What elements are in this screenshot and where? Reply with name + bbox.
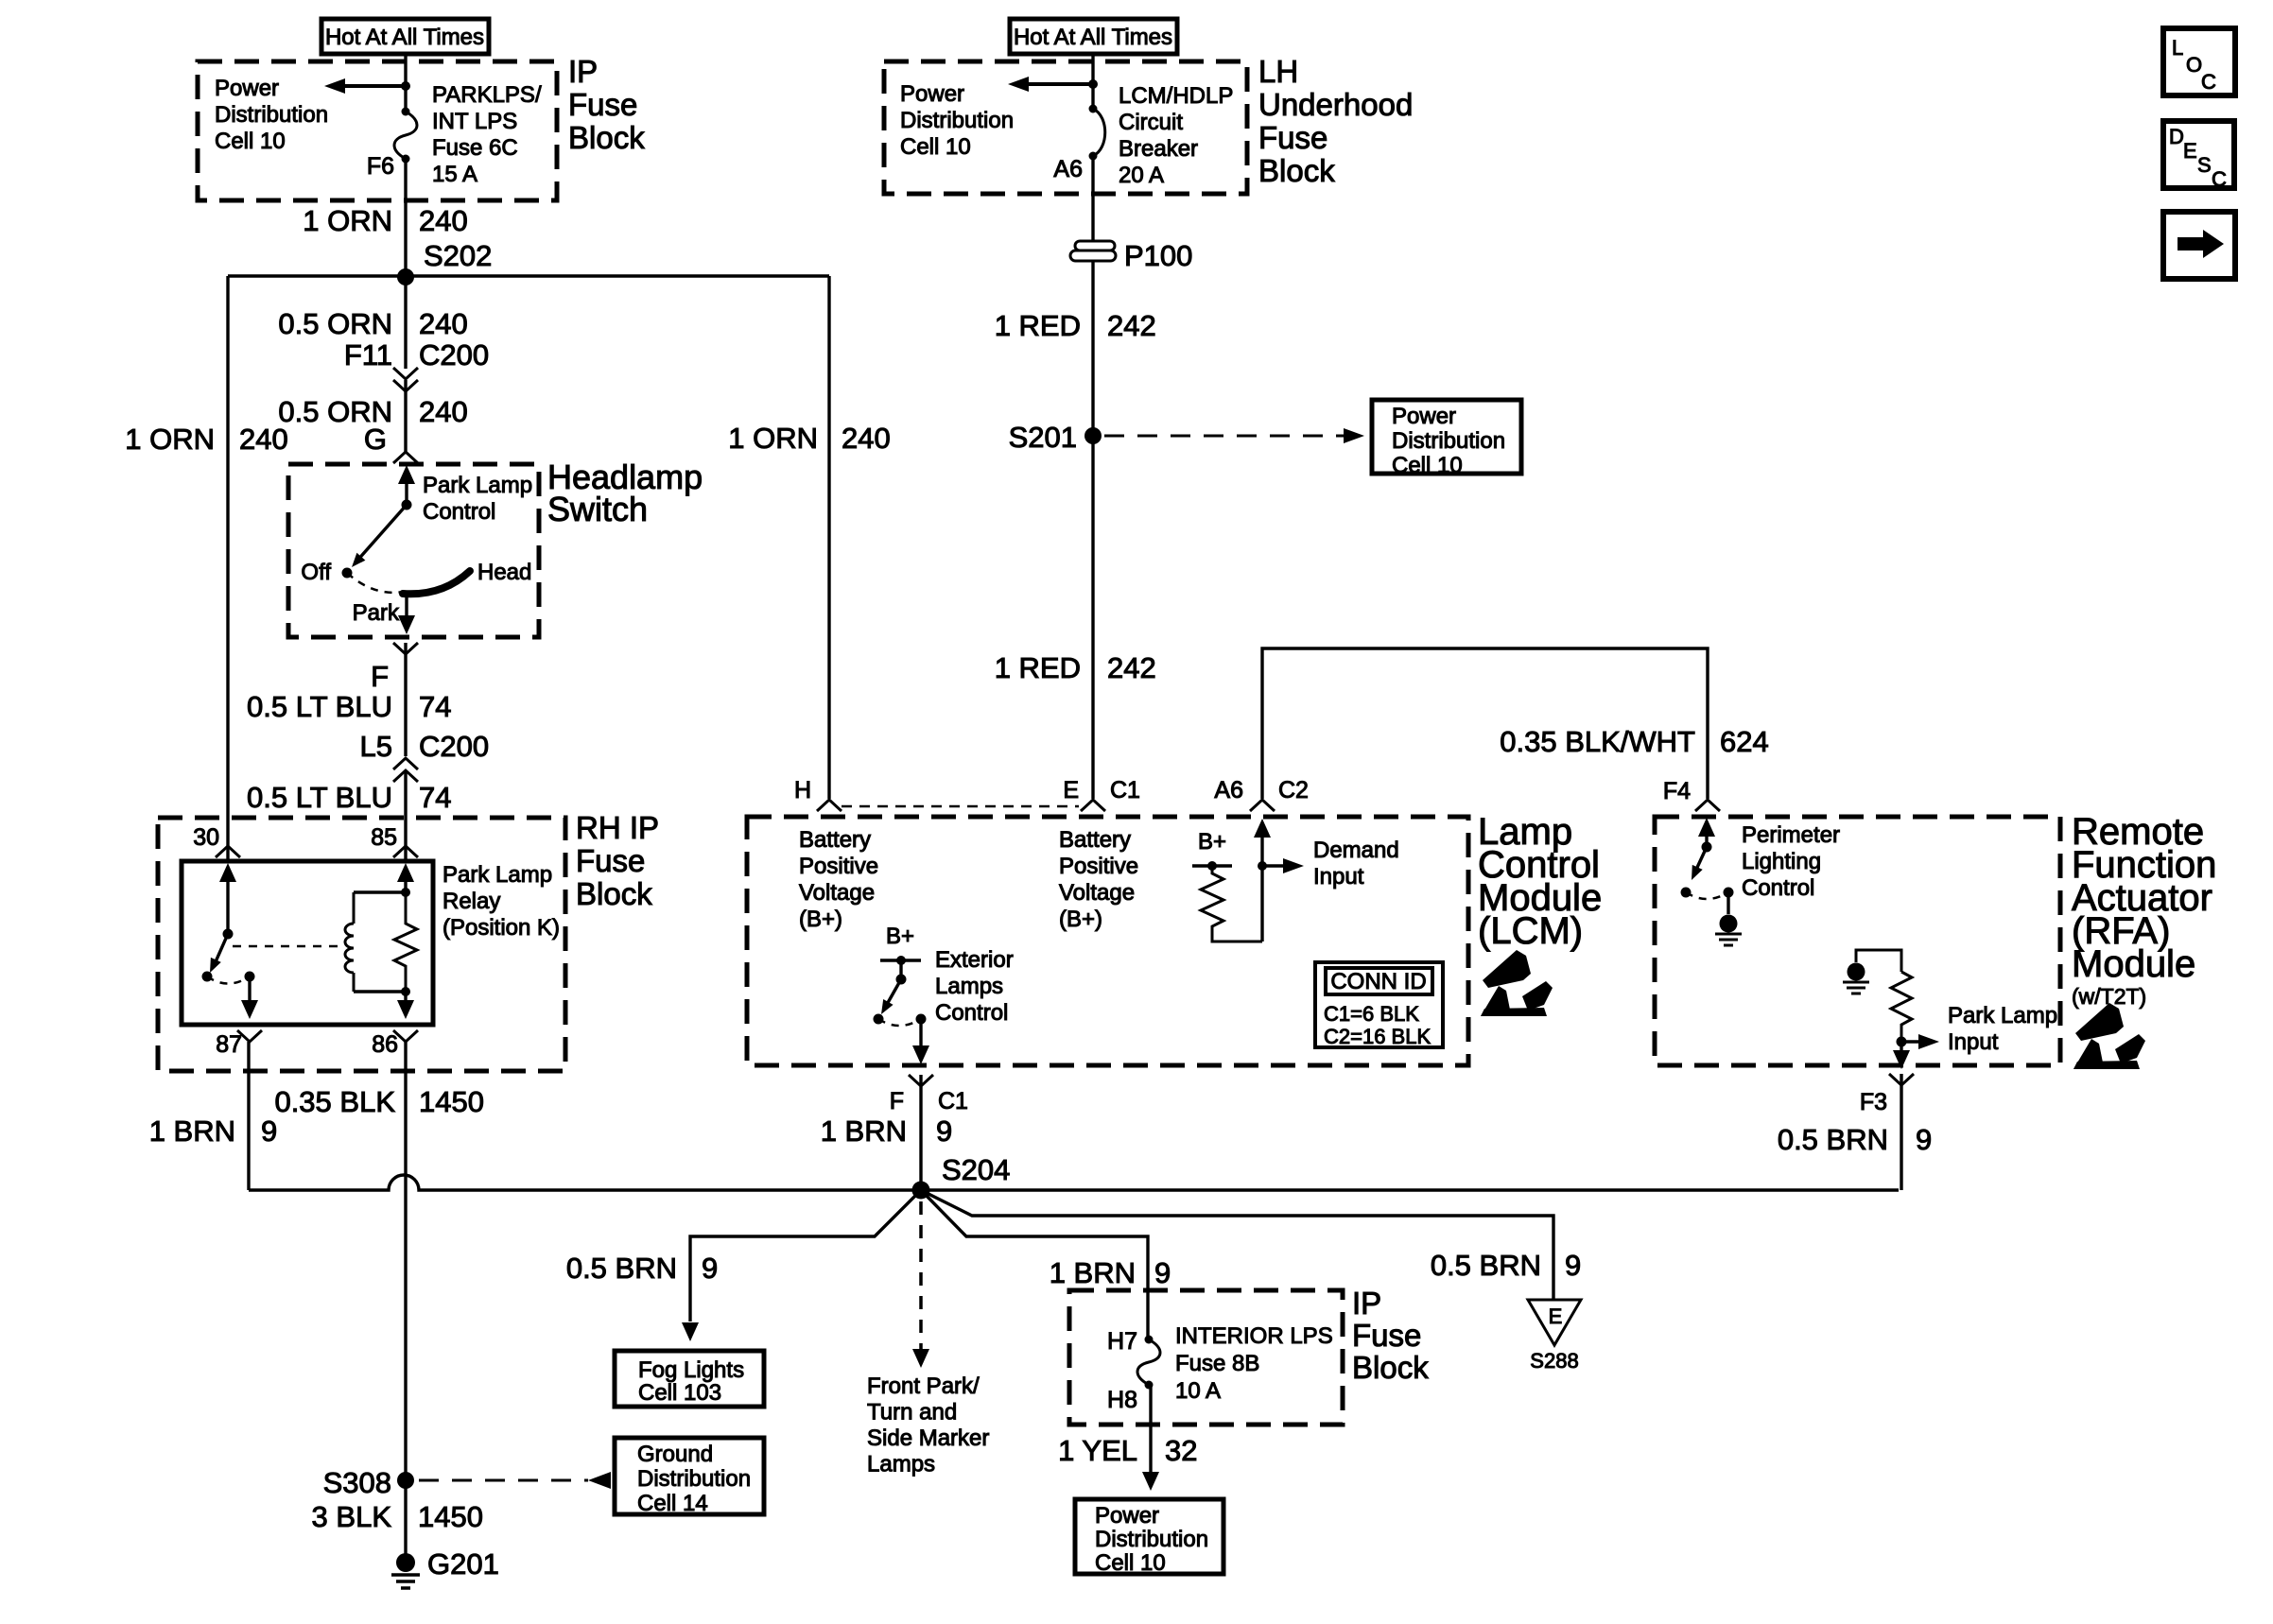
relay switch arm	[214, 934, 228, 966]
svg-text:Input: Input	[1313, 864, 1364, 890]
svg-text:L: L	[2172, 36, 2183, 60]
svg-text:Head: Head	[477, 560, 531, 585]
svg-text:Positive: Positive	[1059, 854, 1138, 879]
svg-text:F6: F6	[367, 153, 394, 180]
svg-text:0.5 BRN: 0.5 BRN	[1778, 1123, 1888, 1156]
svg-text:0.5 LT BLU: 0.5 LT BLU	[247, 690, 392, 723]
svg-text:Distribution: Distribution	[215, 102, 328, 128]
dashed branch S204 to front park lamps	[919, 1201, 923, 1350]
svg-text:1450: 1450	[418, 1500, 483, 1533]
svg-text:F3: F3	[1860, 1089, 1887, 1115]
exterior lamps switch arm	[885, 979, 901, 1008]
svg-text:Off: Off	[301, 560, 331, 585]
svg-text:Fuse 6C: Fuse 6C	[432, 135, 518, 161]
svg-text:74: 74	[419, 690, 451, 723]
IP fuse block dashed box (top left)	[198, 61, 557, 200]
perimeter dashed travel arc	[1686, 892, 1728, 899]
svg-text:Hot At All Times: Hot At All Times	[1014, 25, 1172, 50]
svg-text:Demand: Demand	[1313, 838, 1399, 863]
splice S201	[1084, 427, 1102, 444]
svg-text:0.5 BRN: 0.5 BRN	[1431, 1249, 1541, 1282]
svg-text:Perimeter: Perimeter	[1742, 822, 1840, 848]
svg-text:1 ORN: 1 ORN	[303, 204, 392, 237]
svg-text:9: 9	[261, 1114, 277, 1148]
pin 30 connector chevron	[216, 846, 240, 857]
svg-text:B+: B+	[886, 924, 914, 949]
svg-text:0.5 LT BLU: 0.5 LT BLU	[247, 781, 392, 814]
svg-text:S: S	[2197, 153, 2212, 177]
connector C200 (L5) symbol	[393, 758, 418, 769]
svg-text:C200: C200	[419, 338, 489, 371]
svg-text:Distribution: Distribution	[637, 1466, 751, 1492]
wire from Hot At All Times into LH underhood fuse block	[1091, 54, 1094, 109]
reference box Power Distribution Cell 10 (right of S201)	[1372, 400, 1521, 474]
svg-text:240: 240	[419, 395, 468, 428]
svg-text:Fuse 8B: Fuse 8B	[1175, 1351, 1259, 1376]
arrow to power distribution	[1142, 1472, 1159, 1491]
svg-text:H8: H8	[1107, 1387, 1137, 1413]
grommet P100	[1070, 241, 1116, 261]
svg-text:Fuse: Fuse	[1352, 1318, 1421, 1353]
svg-text:Park: Park	[353, 600, 400, 626]
svg-text:S201: S201	[1009, 421, 1077, 454]
svg-text:20 A: 20 A	[1119, 163, 1164, 188]
svg-text:9: 9	[702, 1252, 718, 1285]
svg-text:86: 86	[372, 1031, 398, 1058]
svg-text:0.35 BLK/WHT: 0.35 BLK/WHT	[1500, 725, 1695, 758]
svg-text:Park Lamp: Park Lamp	[423, 473, 532, 498]
circuit breaker LCM/HDLP 20A	[1093, 109, 1105, 156]
svg-text:Side Marker: Side Marker	[867, 1425, 989, 1451]
svg-text:Cell 14: Cell 14	[637, 1491, 708, 1516]
svg-text:9: 9	[1154, 1256, 1171, 1289]
branch wire S204 to fog lights	[690, 1190, 921, 1322]
dashed reference line S308 to ground distribution	[419, 1479, 588, 1482]
svg-text:30: 30	[193, 824, 219, 851]
pin F3 connector chevron	[1889, 1074, 1914, 1085]
svg-text:Voltage: Voltage	[799, 880, 875, 906]
perimeter switch arm	[1695, 847, 1707, 872]
front park lamps arrow	[912, 1349, 929, 1368]
svg-text:Ground: Ground	[637, 1442, 713, 1467]
svg-text:Switch: Switch	[547, 490, 648, 528]
splice S308	[397, 1472, 414, 1489]
svg-text:Cell 10: Cell 10	[1392, 453, 1463, 478]
reference arrowhead (points left)	[588, 1472, 611, 1489]
svg-text:Battery: Battery	[799, 827, 871, 853]
exterior lamps contact dot right	[916, 1014, 927, 1025]
pin F connector chevron below switch	[393, 643, 418, 654]
svg-text:(B+): (B+)	[799, 907, 842, 932]
perimeter switch pivot	[1702, 842, 1712, 853]
svg-text:242: 242	[1107, 309, 1156, 342]
dashed travel arc Off to Park	[347, 573, 403, 593]
relay pin85 internal arrow up	[397, 863, 414, 882]
junction dot coil bottom	[401, 987, 410, 996]
relay switch pivot	[223, 929, 234, 940]
svg-text:Power: Power	[1392, 404, 1456, 429]
svg-text:L5: L5	[360, 730, 392, 763]
svg-text:9: 9	[1916, 1123, 1932, 1156]
svg-text:E: E	[2183, 139, 2197, 163]
svg-text:E: E	[1549, 1304, 1563, 1328]
fuse INTERIOR LPS Fuse 8B 10A	[1137, 1339, 1160, 1385]
svg-text:1 RED: 1 RED	[995, 309, 1081, 342]
svg-text:Park Lamp: Park Lamp	[1948, 1003, 2057, 1028]
pin H connector chevron	[817, 800, 842, 811]
svg-text:Fuse: Fuse	[1258, 120, 1327, 155]
wire pin 87 down to main horizontal	[247, 1042, 250, 1190]
svg-text:S204: S204	[942, 1153, 1010, 1186]
svg-text:Turn and: Turn and	[867, 1400, 957, 1425]
reference box Fog Lights Cell 103	[615, 1351, 764, 1407]
wire C200 L5 down to relay pin 85	[404, 770, 407, 861]
wire pin 86 down to S308 and G201	[404, 1042, 407, 1563]
svg-text:1 BRN: 1 BRN	[149, 1114, 235, 1148]
svg-text:1 BRN: 1 BRN	[821, 1114, 907, 1148]
relay wire 87 exit with arrow	[248, 976, 251, 1004]
svg-text:1 BRN: 1 BRN	[1050, 1256, 1136, 1289]
splice symbol S288 triangle	[1528, 1300, 1581, 1345]
svg-text:0.5 BRN: 0.5 BRN	[566, 1252, 677, 1285]
demand input wire with up arrow	[1254, 819, 1271, 838]
svg-text:C200: C200	[419, 730, 489, 763]
pin G connector chevron	[393, 452, 418, 463]
ground ball (perimeter switch)	[1720, 915, 1738, 933]
wire LCM F down to S204	[919, 1075, 922, 1190]
exterior lamps contact dot left	[874, 1014, 884, 1025]
headlamp switch pivot	[402, 500, 412, 510]
svg-text:85: 85	[371, 824, 397, 851]
LH underhood fuse block dashed box	[884, 61, 1247, 194]
pin F/C1 connector chevron	[909, 1075, 933, 1086]
svg-text:H7: H7	[1107, 1328, 1137, 1355]
splice S202	[397, 268, 414, 285]
svg-text:C2: C2	[1278, 777, 1309, 803]
CONN ID table outer box	[1315, 962, 1443, 1047]
relay coil bottom wire	[354, 990, 406, 993]
svg-text:INT LPS: INT LPS	[432, 109, 517, 134]
svg-text:D: D	[2169, 125, 2184, 148]
svg-text:Block: Block	[576, 876, 652, 911]
svg-text:Cell 103: Cell 103	[638, 1380, 721, 1406]
remote function actuator dashed box	[1655, 817, 2060, 1065]
svg-text:87: 87	[216, 1031, 242, 1058]
main horizontal wire with hop over pin86 wire	[249, 1175, 1899, 1190]
ESD sensitivity symbol (RFA)	[2073, 1003, 2145, 1069]
svg-text:Lamps: Lamps	[935, 974, 1003, 999]
svg-text:Hot At All Times: Hot At All Times	[325, 25, 484, 50]
thick arc Head position	[403, 571, 470, 594]
junction dot park lamp input	[1897, 1037, 1907, 1047]
svg-text:Distribution: Distribution	[1095, 1527, 1208, 1552]
svg-text:CONN ID: CONN ID	[1330, 969, 1426, 994]
svg-text:3 BLK: 3 BLK	[312, 1500, 392, 1533]
svg-text:Park Lamp: Park Lamp	[442, 862, 552, 888]
reference box Power Distribution Cell 10 (bottom)	[1075, 1499, 1223, 1574]
svg-text:Power: Power	[1095, 1503, 1159, 1529]
power label box 'Hot At All Times' (left)	[321, 19, 489, 54]
wire Park contact down / exit arrow	[405, 593, 408, 619]
svg-text:Battery: Battery	[1059, 827, 1131, 853]
svg-text:15 A: 15 A	[432, 162, 477, 187]
fog lights arrow	[682, 1322, 699, 1341]
relay coil top wire	[354, 890, 406, 893]
park lamp relay box	[182, 861, 433, 1025]
svg-text:Lighting: Lighting	[1742, 849, 1821, 874]
dashed reference arrow S201 to Power Distribution	[1104, 435, 1350, 438]
svg-text:Positive: Positive	[799, 854, 878, 879]
svg-text:F4: F4	[1663, 778, 1691, 804]
reference box Ground Distribution Cell 14	[615, 1438, 764, 1514]
relay dashed actuation line	[233, 945, 338, 948]
svg-text:Circuit: Circuit	[1119, 110, 1183, 135]
exterior lamps dashed travel arc	[878, 1019, 921, 1026]
svg-text:Fog Lights: Fog Lights	[638, 1357, 744, 1383]
exterior lamps control B+ bar	[880, 959, 921, 961]
svg-text:PARKLPS/: PARKLPS/	[432, 82, 542, 108]
arrow to Power Distribution Cell 10 (middle)	[1026, 82, 1093, 86]
exterior lamps exit wire with arrow	[919, 1019, 922, 1047]
svg-text:Cell 10: Cell 10	[900, 134, 971, 160]
perimeter contact dot right	[1724, 888, 1734, 898]
svg-text:Block: Block	[568, 120, 645, 155]
svg-text:S308: S308	[323, 1466, 391, 1499]
junction dot coil top	[401, 888, 410, 897]
svg-text:Relay: Relay	[442, 889, 500, 914]
svg-text:Distribution: Distribution	[900, 108, 1014, 133]
wire into fuse H7	[1146, 1290, 1149, 1339]
svg-text:74: 74	[419, 781, 451, 814]
demand input arrow right	[1262, 864, 1289, 867]
svg-text:9: 9	[936, 1114, 952, 1148]
svg-text:Control: Control	[935, 1000, 1008, 1026]
splice S204	[912, 1182, 930, 1200]
wire S202 down to C200 F11	[404, 277, 407, 369]
ESD sensitivity symbol (LCM)	[1481, 950, 1553, 1016]
exterior lamps switch stem	[899, 960, 902, 979]
relay resistor	[394, 892, 417, 992]
pin 86 connector chevron	[393, 1030, 418, 1042]
svg-text:F11: F11	[344, 338, 392, 371]
svg-text:(B+): (B+)	[1059, 907, 1102, 932]
svg-text:C: C	[2201, 70, 2216, 94]
svg-text:Input: Input	[1948, 1029, 1999, 1055]
svg-text:RH IP: RH IP	[576, 810, 659, 845]
svg-text:E: E	[1063, 777, 1079, 803]
svg-text:Power: Power	[900, 81, 964, 107]
svg-text:Breaker: Breaker	[1119, 136, 1198, 162]
svg-text:1 ORN: 1 ORN	[125, 423, 215, 456]
svg-text:Front Park/: Front Park/	[867, 1373, 980, 1399]
svg-text:C: C	[2212, 167, 2227, 191]
svg-text:A6: A6	[1053, 156, 1083, 182]
svg-text:Block: Block	[1352, 1350, 1429, 1385]
park lamp input exit wire with arrow	[1900, 1042, 1902, 1051]
svg-text:10 A: 10 A	[1175, 1378, 1221, 1404]
svg-text:9: 9	[1565, 1249, 1581, 1282]
perimeter switch ground stem	[1726, 892, 1729, 914]
svg-text:INTERIOR LPS: INTERIOR LPS	[1175, 1323, 1333, 1349]
svg-text:C1: C1	[938, 1088, 968, 1114]
relay contact dot right	[245, 972, 255, 982]
relay pin30 internal arrow up	[219, 863, 236, 882]
svg-text:Module: Module	[2072, 943, 2195, 985]
junction dot demand input	[1258, 861, 1267, 871]
svg-text:F: F	[890, 1088, 904, 1114]
relay coil	[353, 892, 356, 924]
svg-text:Exterior: Exterior	[935, 947, 1014, 973]
svg-text:O: O	[2186, 53, 2202, 77]
fuse F6 PARKLPS/INT LPS Fuse 6C 15A	[394, 112, 417, 159]
wire left branch S202 down to relay pin 30	[226, 276, 229, 861]
branch wire S204 to S288	[921, 1190, 1553, 1300]
svg-text:LCM/HDLP: LCM/HDLP	[1119, 83, 1233, 109]
pin F4 connector chevron	[1695, 800, 1720, 811]
svg-text:Control: Control	[423, 499, 495, 525]
park lamp input resistor	[1891, 972, 1912, 1037]
svg-text:A6: A6	[1214, 777, 1243, 803]
arrow to Power Distribution Cell 10 (left)	[342, 84, 406, 88]
pin C2 connector chevron	[1250, 800, 1275, 811]
RH IP fuse block dashed box	[158, 818, 565, 1071]
svg-text:(Position K): (Position K)	[442, 915, 560, 941]
power label box 'Hot At All Times' (middle)	[1010, 19, 1177, 54]
svg-text:H: H	[794, 777, 811, 803]
wire from Hot At All Times into IP fuse block	[404, 54, 407, 112]
svg-text:Distribution: Distribution	[1392, 428, 1505, 454]
wire breaker to P100	[1091, 156, 1094, 241]
svg-text:Power: Power	[215, 76, 279, 101]
pin 87 connector chevron	[237, 1030, 262, 1042]
ground ball (park lamp input)	[1848, 963, 1865, 981]
wire C200 to headlamp switch pin G	[404, 380, 407, 452]
wire S202 branch right down to LCM pin H	[827, 276, 830, 799]
park lamp input network wires	[1856, 950, 1901, 972]
svg-text:B+: B+	[1198, 829, 1226, 855]
wire fuse H8 down	[1149, 1385, 1152, 1475]
svg-text:240: 240	[842, 422, 891, 455]
IP fuse block dashed box (bottom)	[1069, 1290, 1343, 1425]
thin dashed connector line H to E	[842, 805, 1079, 808]
pin 85 connector chevron	[393, 846, 418, 857]
ground G201 symbol	[396, 1553, 415, 1572]
svg-text:240: 240	[419, 204, 468, 237]
svg-text:S202: S202	[424, 239, 492, 272]
wire S201 to LCM pin E	[1091, 436, 1094, 799]
park lamp input arrow right	[1901, 1040, 1922, 1043]
legend box LOC	[2163, 28, 2235, 95]
branch wire S204 to interior lps fuse	[921, 1190, 1148, 1290]
svg-text:Fuse: Fuse	[568, 87, 637, 122]
svg-text:(LCM): (LCM)	[1478, 910, 1583, 952]
svg-text:Cell 10: Cell 10	[1095, 1550, 1166, 1576]
svg-text:0.5 ORN: 0.5 ORN	[278, 307, 392, 340]
relay wire 86 exit with arrow	[404, 992, 407, 1004]
svg-text:F: F	[371, 660, 389, 693]
svg-text:0.35 BLK: 0.35 BLK	[274, 1085, 395, 1118]
svg-text:32: 32	[1165, 1434, 1197, 1467]
perimeter lighting arrow up	[1698, 818, 1715, 837]
svg-text:240: 240	[239, 423, 288, 456]
svg-text:C1=6 BLK: C1=6 BLK	[1324, 1002, 1419, 1026]
headlamp switch arm to Off	[356, 505, 407, 561]
legend box arrow	[2163, 212, 2235, 279]
relay contact dot left	[202, 972, 213, 982]
svg-text:IP: IP	[1352, 1286, 1381, 1321]
CONN ID header box	[1326, 968, 1432, 994]
svg-text:S288: S288	[1530, 1349, 1578, 1373]
svg-text:Underhood: Underhood	[1258, 87, 1413, 122]
wire horizontal at S202	[228, 274, 829, 277]
svg-text:Cell 10: Cell 10	[215, 129, 286, 154]
relay dashed travel arc	[207, 976, 250, 984]
perimeter contact dot left	[1681, 888, 1692, 898]
svg-text:Control: Control	[1742, 875, 1814, 901]
svg-text:IP: IP	[568, 54, 598, 89]
pin E connector chevron	[1081, 800, 1105, 811]
svg-text:G: G	[364, 423, 387, 456]
wire P100 to S201	[1091, 261, 1094, 436]
svg-text:G201: G201	[427, 1547, 499, 1581]
svg-text:Fuse: Fuse	[576, 843, 645, 878]
svg-text:240: 240	[419, 307, 468, 340]
wire F6 to S202	[404, 159, 407, 276]
svg-text:LH: LH	[1258, 54, 1298, 89]
legend box DESC	[2163, 121, 2234, 188]
svg-text:P100: P100	[1124, 239, 1192, 272]
svg-text:242: 242	[1107, 651, 1156, 684]
connector C200 (F11) symbol	[393, 368, 418, 379]
svg-text:624: 624	[1720, 725, 1769, 758]
svg-text:1450: 1450	[419, 1085, 484, 1118]
svg-text:C2=16 BLK: C2=16 BLK	[1324, 1025, 1431, 1048]
svg-text:1 YEL: 1 YEL	[1058, 1434, 1137, 1467]
contact dot Off	[342, 568, 353, 579]
svg-text:1 ORN: 1 ORN	[728, 422, 818, 455]
headlamp switch dashed box	[288, 464, 539, 637]
headlamp switch wiper arrow up	[405, 473, 408, 505]
svg-text:Block: Block	[1258, 153, 1335, 188]
wire switch F to C200 L5	[404, 643, 407, 756]
wire C2 up-over to F4 (0.35 BLK/WHT)	[1262, 648, 1708, 799]
svg-text:Lamps: Lamps	[867, 1452, 935, 1477]
svg-text:Voltage: Voltage	[1059, 880, 1135, 906]
wire F3 down to main horizontal	[1900, 1074, 1902, 1190]
svg-text:C1: C1	[1110, 777, 1140, 803]
svg-text:1 RED: 1 RED	[995, 651, 1081, 684]
resistor (demand input pull)	[1201, 866, 1262, 942]
lamp control module dashed box	[747, 817, 1468, 1065]
